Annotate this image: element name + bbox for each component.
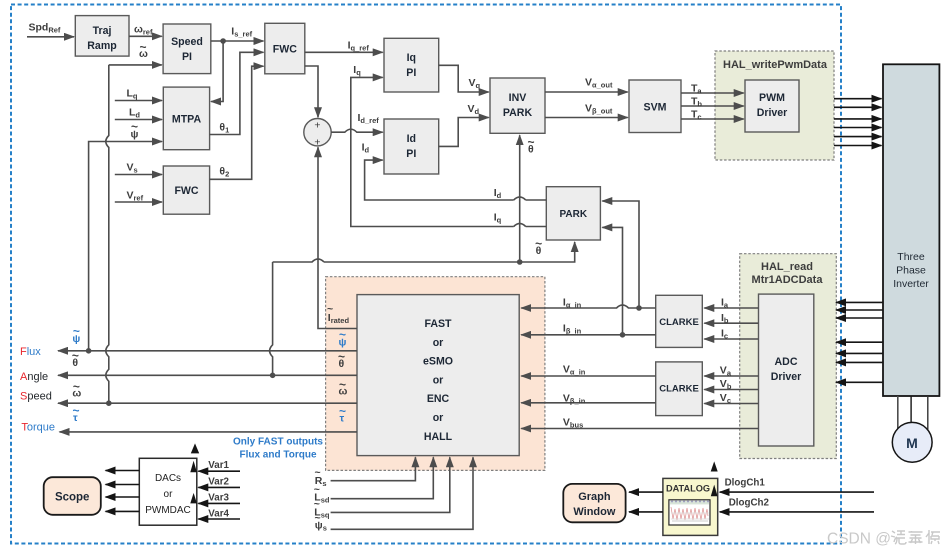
svg-text:~: ~ [315,512,321,524]
svg-text:+: + [314,137,320,149]
svg-text:DATALOG: DATALOG [666,484,710,494]
svg-text:PWMDAC: PWMDAC [145,505,191,516]
svg-text:~: ~ [339,378,346,392]
svg-text:ADC: ADC [775,356,798,368]
svg-text:Flux: Flux [20,346,41,358]
svg-text:Driver: Driver [757,107,788,119]
svg-text:Var2: Var2 [208,476,229,487]
svg-text:DlogCh1: DlogCh1 [725,478,766,489]
svg-text:eSMO: eSMO [423,356,453,368]
svg-text:PI: PI [406,67,416,79]
svg-text:Only FAST outputs: Only FAST outputs [233,437,323,448]
svg-text:INV: INV [509,92,527,104]
svg-text:or: or [433,374,444,386]
svg-text:FWC: FWC [273,44,297,56]
svg-text:PI: PI [182,51,192,63]
svg-text:Speed: Speed [171,36,203,48]
svg-text:CLARKE: CLARKE [659,384,699,395]
svg-text:~: ~ [314,484,320,496]
svg-text:or: or [164,489,174,500]
svg-text:~: ~ [338,350,345,364]
svg-text:Angle: Angle [20,371,48,383]
svg-text:~: ~ [327,303,333,315]
svg-text:PWM: PWM [759,92,785,104]
svg-text:Inverter: Inverter [893,278,929,290]
svg-text:~: ~ [73,404,80,418]
svg-text:FWC: FWC [174,185,198,197]
svg-text:Torque: Torque [21,422,55,434]
svg-text:PARK: PARK [503,107,533,119]
svg-text:Id: Id [407,133,416,145]
svg-text:or: or [433,412,444,424]
svg-text:Speed: Speed [20,391,52,403]
svg-text:ENC: ENC [427,393,450,405]
svg-text:Mtr1ADCData: Mtr1ADCData [752,274,824,286]
svg-text:~: ~ [315,467,321,479]
svg-text:~: ~ [314,498,320,510]
svg-text:HAL_writePwmData: HAL_writePwmData [723,59,828,71]
svg-text:Scope: Scope [55,492,90,504]
svg-text:DACs: DACs [155,473,181,484]
svg-text:SVM: SVM [644,102,667,114]
svg-text:~: ~ [528,135,535,149]
svg-text:PARK: PARK [560,209,588,220]
svg-text:Ramp: Ramp [87,40,117,52]
svg-text:~: ~ [73,324,80,338]
svg-text:DlogCh2: DlogCh2 [729,498,770,509]
svg-text:Var4: Var4 [208,509,229,520]
svg-text:~: ~ [140,40,147,54]
svg-text:Iq: Iq [407,52,416,64]
svg-text:PI: PI [406,148,416,160]
svg-text:Window: Window [573,506,615,518]
svg-text:MTPA: MTPA [172,114,202,126]
svg-text:Traj: Traj [93,25,112,37]
svg-text:~: ~ [73,380,80,394]
svg-text:Three: Three [897,251,925,263]
svg-text:~: ~ [72,349,79,363]
svg-text:FAST: FAST [424,318,452,330]
svg-text:~: ~ [339,404,346,418]
svg-text:CSDN @: CSDN @ [827,531,891,548]
svg-text:Flux and Torque: Flux and Torque [239,450,316,461]
svg-text:CLARKE: CLARKE [659,317,699,328]
svg-text:~: ~ [131,120,138,134]
svg-text:Var1: Var1 [208,460,229,471]
svg-text:Graph: Graph [578,491,611,503]
svg-text:M: M [906,435,918,451]
svg-text:or: or [433,337,444,349]
svg-text:Phase: Phase [896,265,926,277]
svg-text:+: + [314,120,320,132]
svg-text:~: ~ [535,237,542,251]
svg-text:Var3: Var3 [208,492,229,503]
svg-text:HAL_read: HAL_read [761,261,813,273]
svg-text:HALL: HALL [424,431,453,443]
svg-text:Driver: Driver [771,371,802,383]
svg-text:~: ~ [339,328,346,342]
